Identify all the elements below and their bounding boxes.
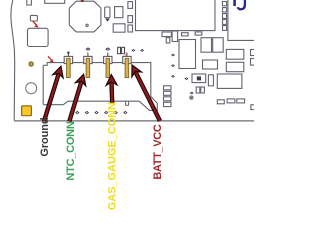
svg-text:NTC_CONN: NTC_CONN: [65, 121, 77, 180]
connector body trapezoid: [43, 101, 157, 110]
pin 2 housing: [84, 56, 92, 63]
svg-text:BATT_VCC: BATT_VCC: [152, 124, 164, 179]
right edge bracket: [251, 105, 256, 110]
gold pad pin 1: [67, 58, 71, 77]
pin 1 stem cap: [67, 52, 69, 54]
shield left edge: [42, 65, 44, 104]
left column pads of shield: [128, 2, 133, 9]
gold via: [29, 62, 33, 66]
arrow NTC: [69, 74, 85, 121]
yellow pad square: [22, 106, 32, 116]
dark mark in component: [197, 76, 201, 80]
dark dot test point: [191, 97, 192, 98]
connector diamond vias row: [75, 111, 127, 114]
arrow GAS: [106, 75, 117, 103]
pin 3 housing: [104, 56, 112, 63]
diamond vias right column: [171, 54, 175, 57]
small red arrow top-left: [33, 21, 39, 28]
small red arrow near shield step: [48, 56, 54, 62]
pin 4 housing: [123, 56, 131, 63]
pin housings group: [64, 56, 131, 63]
board edge curve: [11, 0, 15, 120]
component top wide rect: [45, 0, 65, 3]
arrow BATT: [132, 65, 160, 121]
component R3 horizontal: [113, 24, 125, 32]
mid-right cluster components: [162, 32, 171, 37]
small pad pairs right: [217, 100, 224, 104]
component right of octagon: [105, 7, 110, 18]
triangle below component: [105, 19, 109, 22]
red tick on octagon: [81, 0, 84, 2]
diamond via above pin3: [105, 47, 110, 50]
diamond via above pin2: [85, 47, 90, 50]
crystal Y1 octagon: [69, 1, 101, 32]
connector shield outline: [43, 63, 157, 111]
svg-text:GAS_GAUGE_CONN: GAS_GAUGE_CONN: [107, 102, 119, 210]
svg-text:Ground: Ground: [39, 117, 51, 156]
diamonds mid-right: [184, 77, 188, 80]
board bottom line: [14, 120, 254, 122]
octagon pin1 dot: [86, 24, 88, 26]
arrow Ground: [44, 66, 63, 121]
pin 1 housing: [64, 56, 72, 63]
shield can big rectangle: [136, 0, 216, 31]
4-bar pad column: [164, 86, 172, 90]
gold pad pin 2: [86, 58, 90, 77]
component R2: [115, 7, 123, 18]
white circle via: [26, 83, 37, 94]
gold pad pin 3: [106, 58, 110, 77]
svg-text:2: 2: [87, 51, 90, 56]
small component near U1: [30, 15, 37, 21]
trapezoid tab notch: [126, 101, 129, 105]
pads above pin4: [118, 47, 121, 53]
top-right shield rect: [228, 0, 254, 40]
test point circle: [190, 96, 193, 99]
diamond vias right of pin4: [131, 49, 135, 52]
capacitor C (top-left tiny vertical): [27, 0, 32, 5]
IC U1 square: [28, 28, 49, 46]
pin stems: [68, 53, 127, 57]
blue glyph top right: [235, 0, 245, 9]
right pad column of shield: [222, 2, 226, 6]
gold pad pin 4: [125, 58, 129, 77]
